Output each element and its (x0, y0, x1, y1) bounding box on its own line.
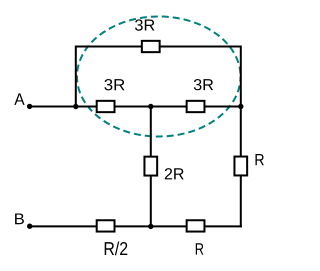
label R_right (R) (256, 154, 264, 165)
label 3R_top (3R) (135, 19, 155, 30)
wire: right vertical (240, 46, 242, 228)
node B terminal dot (27, 224, 32, 229)
junction: middle vertical x bottom wire (148, 224, 153, 229)
wire: top horizontal (76, 46, 241, 48)
resistor 3R (top) (142, 41, 160, 52)
resistor 3R (middle left) (97, 101, 115, 112)
resistor R/2 (bottom left) (97, 220, 115, 231)
resistor R (bottom right) (187, 220, 205, 231)
label Rdiv2 (R/2) (105, 242, 128, 256)
label 2R (2R) (165, 168, 184, 179)
junction: middle vertical x middle wire (148, 104, 153, 109)
resistor 2R (middle vertical) (144, 157, 157, 176)
label 3R_mid2 (3R) (194, 79, 213, 90)
resistor R (right vertical) (234, 157, 247, 176)
wire: middle vertical (150, 107, 152, 227)
resistor 3R (middle right) (187, 101, 205, 112)
label R_bot (R) (196, 243, 204, 254)
label B (B) (15, 214, 24, 225)
wire: middle horizontal from node A (30, 106, 241, 108)
wire: bottom horizontal from node B (30, 225, 242, 227)
dashed highlight ellipse (encircled sub-network) (77, 17, 241, 137)
junction: left vertical x middle wire (73, 104, 78, 109)
label A (A) (14, 93, 24, 105)
node A terminal dot (27, 104, 32, 109)
junction: right vertical x middle wire (238, 104, 243, 109)
label 3R_mid1 (3R) (104, 79, 124, 90)
wire: left vertical of top loop (75, 46, 77, 107)
